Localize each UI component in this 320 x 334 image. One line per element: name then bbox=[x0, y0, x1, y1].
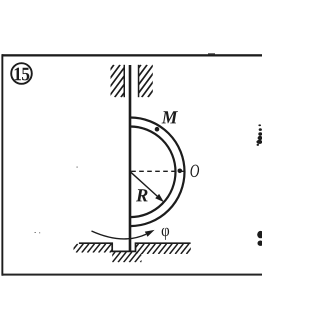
label O bbox=[190, 165, 199, 177]
wall bearing left edge bbox=[124, 65, 126, 97]
frame top border scan bump bbox=[208, 53, 215, 54]
badge number 15 bbox=[15, 68, 21, 81]
label M bbox=[162, 111, 178, 123]
label phi bbox=[162, 228, 169, 240]
frame top border bbox=[2, 54, 262, 56]
phi arrowhead bbox=[145, 230, 155, 237]
point O dot bbox=[178, 169, 183, 174]
label R bbox=[136, 189, 148, 201]
frame left border bbox=[1, 54, 3, 276]
point M dot bbox=[155, 127, 160, 132]
faint specks bbox=[35, 167, 78, 234]
frame bottom border bbox=[2, 274, 262, 276]
wall hatching right bbox=[92, 65, 178, 97]
radius R arrowhead bbox=[155, 194, 164, 202]
rod (vertical axis) bbox=[129, 65, 132, 251]
wall bearing right edge bbox=[138, 65, 140, 97]
ring outer arc bbox=[130, 118, 184, 227]
ground hatching middle (under recess) bbox=[96, 252, 149, 262]
phi rotation arc bbox=[92, 231, 147, 239]
ground profile bbox=[79, 243, 191, 251]
ground hatching left bbox=[59, 244, 117, 253]
stray mark cluster right edge lower bbox=[257, 231, 264, 246]
badge circle 15 bbox=[11, 63, 32, 84]
dashed radius line bbox=[131, 170, 184, 172]
stray mark cluster right edge upper bbox=[256, 124, 262, 145]
wall hatching left bbox=[65, 65, 151, 97]
ring inner arc bbox=[130, 127, 175, 218]
ground hatching right bbox=[119, 244, 200, 254]
radius R line bbox=[131, 172, 157, 196]
